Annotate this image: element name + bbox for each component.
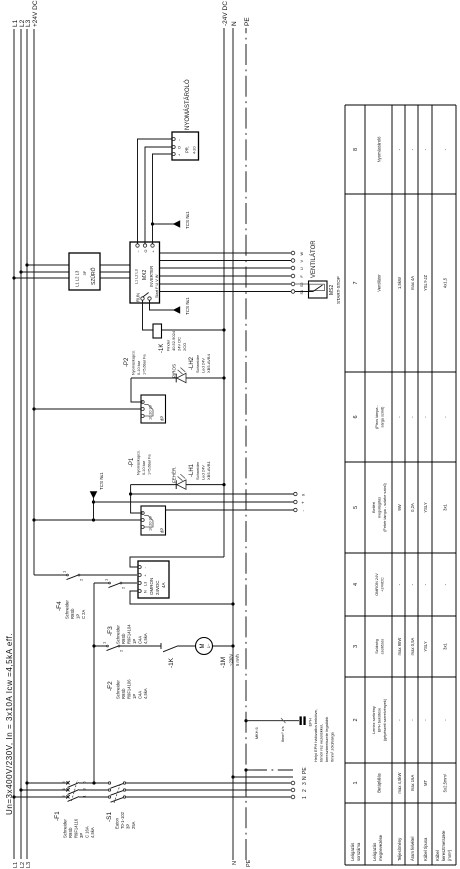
svg-text:3: 3	[302, 782, 308, 785]
inverter RUN terminals	[141, 293, 151, 301]
EPH lug	[300, 716, 313, 726]
wire P2 NO contact to LED	[131, 378, 143, 402]
svg-text:PE: PE	[302, 767, 308, 774]
svg-text:szellőzés: szellőzés	[381, 639, 385, 655]
svg-text:YSLY-JZ: YSLY-JZ	[423, 275, 428, 292]
inverter analog terminals	[136, 244, 156, 253]
svg-text:1,5kW: 1,5kW	[397, 277, 402, 289]
pressure switch P2	[141, 395, 166, 423]
fan switch label	[329, 276, 341, 304]
svg-text:R9F14116: R9F14116	[74, 818, 79, 838]
svg-text:1P: 1P	[132, 694, 137, 699]
svg-text:8: 8	[353, 148, 359, 151]
wire incoming phase 1	[14, 796, 291, 798]
svg-text:Schneider: Schneider	[116, 680, 121, 699]
table column 3 szellozes	[353, 637, 448, 655]
wire filter to inverter	[100, 265, 130, 278]
svg-text:OMRON: OMRON	[149, 578, 154, 595]
svg-text:Finder: Finder	[166, 339, 171, 351]
wire rail L3	[25, 19, 32, 868]
svg-text:Beltéri: Beltéri	[372, 502, 376, 513]
svg-text:-F4: -F4	[56, 601, 63, 611]
svg-text:1P: 1P	[76, 614, 81, 619]
node L3 tap to filter	[25, 263, 28, 266]
svg-text:3x1: 3x1	[443, 642, 448, 649]
svg-text:6mm² z/s: 6mm² z/s	[281, 726, 285, 742]
wire inverter output U	[160, 267, 292, 269]
svg-text:SZŰRŐ: SZŰRŐ	[90, 267, 97, 285]
svg-text:0-10 bar: 0-10 bar	[137, 360, 141, 375]
node +24V tap P2	[32, 407, 35, 410]
wire PSU N to N rail	[130, 591, 233, 604]
svg-text:0,2A: 0,2A	[410, 503, 415, 512]
node F2 branch tap	[92, 644, 95, 647]
svg-text:Un=3x400V/230V, In = 3x10A Icw: Un=3x400V/230V, In = 3x10A Icw =4,5kA ef…	[5, 633, 14, 815]
breaker F3 pin labels	[104, 578, 126, 589]
svg-text:keresztmetszete legalább: keresztmetszete legalább	[324, 716, 329, 762]
table column 7 ventilator	[353, 274, 448, 292]
fan MS2 box	[295, 281, 327, 298]
node LH1 to -24V	[222, 483, 225, 486]
svg-text:Nyomástároló: Nyomástároló	[377, 136, 382, 163]
svg-text:RUN: RUN	[136, 293, 141, 302]
svg-text:YSLY: YSLY	[423, 641, 428, 652]
node motor to N	[231, 644, 234, 647]
wire +24V to P1	[34, 519, 141, 521]
wire TCS reference arrow 2	[150, 297, 191, 315]
svg-text:max 0,5A: max 0,5A	[410, 637, 415, 655]
svg-text:PIROS: PIROS	[172, 364, 177, 378]
filter Z1	[69, 253, 100, 290]
breaker F1 pole 1	[66, 795, 79, 801]
svg-text:PE: PE	[244, 17, 251, 26]
svg-text:O: O	[144, 250, 148, 253]
breaker F3 value label	[107, 624, 148, 644]
motor M1 label	[220, 653, 240, 668]
wire P1 NO contact to LED	[131, 485, 143, 513]
svg-text:YSLY: YSLY	[423, 502, 428, 513]
svg-text:PE: PE	[246, 859, 252, 867]
power supply U1 OMRON	[138, 561, 169, 598]
svg-text:tömör réz vezetékkel,: tömör réz vezetékkel,	[319, 724, 324, 762]
svg-text:5 m³/h: 5 m³/h	[235, 653, 240, 666]
svg-text:-24V DC: -24V DC	[222, 1, 229, 26]
terminal transmitter plus	[294, 500, 306, 504]
node PE tap to terminal	[244, 768, 247, 771]
terminal 1	[291, 795, 308, 799]
node L1 tap to filter	[12, 276, 15, 279]
breaker F1 pole 2	[66, 788, 79, 794]
svg-text:Kábel: Kábel	[435, 850, 440, 861]
wire inverter to sensor 2	[145, 147, 172, 244]
svg-text:0-10 bar: 0-10 bar	[142, 460, 146, 475]
svg-text:1=5,6bar Fa: 1=5,6bar Fa	[143, 354, 147, 375]
svg-text:4,5kA: 4,5kA	[143, 633, 148, 644]
svg-text:5: 5	[353, 506, 359, 509]
svg-text:24V DC: 24V DC	[177, 337, 182, 351]
svg-text:5x2,5mm²: 5x2,5mm²	[443, 773, 448, 792]
wire EPH cable tick	[255, 718, 286, 742]
wire inverter output S1	[160, 291, 292, 293]
wire inverter to sensor 1	[138, 139, 173, 244]
svg-text:Schneider: Schneider	[65, 600, 70, 619]
svg-text:max 4A: max 4A	[410, 276, 415, 290]
svg-text:Schneider: Schneider	[195, 461, 200, 480]
motor M1	[196, 638, 213, 655]
svg-text:Nyomáskapcs.: Nyomáskapcs.	[132, 350, 136, 375]
svg-text:N: N	[232, 861, 238, 865]
svg-text:4x1,5: 4x1,5	[443, 277, 448, 288]
svg-text:max 95W: max 95W	[397, 638, 402, 656]
svg-text:Lemez szekrény: Lemez szekrény	[372, 706, 376, 734]
svg-text:-F1: -F1	[54, 811, 61, 821]
breaker F1 mechanical link	[72, 780, 78, 801]
svg-text:6mm² zöld/sárga: 6mm² zöld/sárga	[330, 731, 335, 762]
wire +24V to P2	[34, 408, 141, 410]
terminal 3	[291, 781, 308, 785]
wire rail PE	[244, 17, 252, 867]
svg-text:INVERTER: INVERTER	[149, 266, 154, 287]
svg-text:+24V DC: +24V DC	[32, 0, 39, 27]
svg-text:24VDC: 24VDC	[155, 580, 160, 595]
svg-text:max 16A: max 16A	[410, 775, 415, 792]
wire transmitter minus	[166, 509, 294, 511]
table header column	[350, 830, 452, 861]
svg-text:T0-1-102: T0-1-102	[120, 811, 125, 829]
node +24V tap P1	[32, 518, 35, 521]
svg-text:START-STOP: START-STOP	[336, 276, 341, 304]
node L2 tap to F1	[19, 788, 22, 791]
svg-text:1: 1	[302, 796, 308, 799]
svg-text:Leágazás: Leágazás	[350, 843, 355, 861]
svg-text:(Fehér lámpa - szürke színű): (Fehér lámpa - szürke színű)	[383, 482, 387, 531]
svg-text:MKH 6: MKH 6	[255, 727, 259, 739]
svg-text:TCS №1: TCS №1	[185, 297, 190, 315]
svg-text:Schneider: Schneider	[63, 819, 68, 838]
svg-text:VENTILÁTOR: VENTILÁTOR	[310, 240, 317, 278]
svg-text:-F3: -F3	[107, 626, 114, 636]
wire coil to -24V	[162, 329, 225, 331]
wire rail L1	[12, 19, 19, 868]
svg-text:Led 24V: Led 24V	[201, 358, 206, 373]
LED LH2 value label	[189, 353, 211, 373]
svg-text:-1K: -1K	[168, 657, 175, 668]
EPH note	[313, 709, 335, 762]
svg-text:Nyomáskapcs.: Nyomáskapcs.	[137, 450, 141, 475]
breaker F4 value label	[56, 600, 86, 619]
svg-text:U: U	[300, 267, 304, 270]
svg-text:25A: 25A	[131, 821, 136, 829]
wire inverter output W	[160, 252, 292, 254]
svg-text:1=5,6bar Fa: 1=5,6bar Fa	[148, 454, 152, 475]
svg-text:Áram felvétel: Áram felvétel	[410, 836, 415, 861]
svg-text:Schneider: Schneider	[116, 625, 121, 644]
breaker F3 contact	[109, 582, 122, 588]
svg-text:4,5kA: 4,5kA	[90, 827, 95, 838]
svg-text:L1 L2 L3: L1 L2 L3	[75, 270, 80, 287]
table column 1 Betaplalas	[353, 772, 448, 793]
svg-text:2CO: 2CO	[182, 343, 187, 351]
LED LH1	[131, 474, 224, 489]
svg-text:L1: L1	[13, 862, 19, 868]
svg-text:MS2: MS2	[329, 285, 335, 296]
breaker F1 value label	[54, 811, 95, 838]
svg-text:-F2: -F2	[107, 681, 114, 691]
inverter U2 MX2	[130, 242, 160, 303]
breaker F1 pin labels	[61, 781, 87, 798]
wire rail -24V DC	[130, 1, 229, 567]
svg-text:TCS №1: TCS №1	[185, 211, 190, 229]
svg-text:Start F U V W: Start F U V W	[155, 274, 159, 298]
node transmitter plus junction	[92, 500, 95, 503]
relay coil K1 label	[159, 330, 187, 353]
svg-text:4A: 4A	[161, 582, 166, 588]
svg-text:4-20: 4-20	[193, 146, 197, 154]
svg-text:keresztmetszete: keresztmetszete	[441, 830, 446, 861]
svg-text:XB5-AVB4: XB5-AVB4	[206, 353, 211, 373]
svg-text:3P: 3P	[79, 833, 84, 838]
svg-text:~230V: ~230V	[229, 654, 234, 666]
svg-text:L3: L3	[26, 862, 32, 868]
wire inverter output S2	[160, 283, 292, 285]
LED LH1 value label	[189, 460, 211, 480]
svg-text:EPH bekötése: EPH bekötése	[378, 708, 382, 732]
fan terminal labels	[300, 252, 304, 295]
svg-text:megvilágítás: megvilágítás	[378, 497, 382, 518]
svg-text:C4A: C4A	[138, 691, 143, 699]
breaker F1 pole 3	[66, 781, 79, 787]
breaker F2 contact	[107, 645, 120, 651]
table column 8 nyomastarolo	[353, 136, 448, 163]
svg-text:9W: 9W	[397, 504, 402, 510]
LED LH2	[131, 368, 224, 383]
svg-text:W: W	[300, 252, 304, 256]
svg-text:max 4,5kW: max 4,5kW	[397, 772, 402, 793]
pressure switch P1 label	[129, 450, 152, 475]
pressure sensor B1	[172, 132, 199, 160]
svg-text:-P1: -P1	[129, 457, 135, 467]
breaker F4 pin labels	[62, 570, 84, 581]
wire TCS branch transmitter plus	[93, 502, 95, 520]
wire transmitter plus	[94, 501, 294, 503]
node PE tap EPH	[244, 719, 247, 722]
table column 2 EPH	[353, 698, 448, 741]
svg-text:R9Sb: R9Sb	[68, 827, 73, 838]
svg-text:PR.: PR.	[185, 146, 190, 153]
wire inverter output V	[160, 260, 292, 262]
svg-text:S1: S1	[300, 290, 304, 295]
wire TCS reference arrow 1	[153, 211, 191, 229]
wire transmitter x	[131, 493, 294, 495]
svg-text:1~: 1~	[206, 643, 211, 648]
svg-text:L3: L3	[144, 582, 148, 586]
svg-text:-1K: -1K	[159, 344, 165, 353]
svg-text:R9F14104: R9F14104	[127, 624, 132, 644]
svg-text:FEHÉR.: FEHÉR.	[171, 466, 177, 483]
wire rail +24V DC	[32, 0, 39, 575]
node L2 tap to filter	[19, 270, 22, 273]
node L3 tap to F1	[25, 781, 28, 784]
switch S1 pole 3	[108, 782, 125, 788]
svg-text:3F: 3F	[82, 270, 87, 275]
svg-text:Teljesítmény: Teljesítmény	[397, 837, 402, 861]
node TCS tap P1 line	[92, 518, 95, 521]
svg-text:Leágazás: Leágazás	[372, 843, 377, 861]
svg-text:-1M: -1M	[220, 657, 227, 668]
svg-text:N: N	[231, 21, 238, 26]
wire F3 branch	[94, 582, 137, 584]
wire incoming phase 3	[27, 782, 291, 784]
svg-text:Led 24V: Led 24V	[201, 465, 206, 480]
table grid	[345, 105, 456, 865]
svg-text:Eaton: Eaton	[115, 817, 120, 829]
svg-text:R9Sb: R9Sb	[121, 688, 126, 699]
switch S1 mechanical link	[114, 785, 120, 803]
pressure switch P1	[141, 506, 166, 535]
terminal transmitter minus	[294, 508, 306, 511]
relay coil K1	[153, 324, 162, 338]
node feeder tap on phase 3	[92, 781, 95, 784]
svg-text:C4A: C4A	[138, 636, 143, 644]
wire inverter RUN to coil	[143, 300, 154, 330]
breaker F2 pin labels	[102, 641, 124, 652]
svg-text:-P2: -P2	[124, 357, 130, 367]
wire PE to terminal	[246, 767, 308, 774]
svg-text:2: 2	[353, 718, 359, 721]
node LH2 to -24V	[222, 376, 225, 379]
wire rail N	[231, 21, 238, 865]
svg-text:L1: L1	[12, 19, 19, 27]
svg-text:Szükség: Szükség	[375, 639, 379, 654]
svg-text:R9Sb: R9Sb	[70, 608, 75, 619]
breaker F4 contact	[67, 574, 80, 580]
svg-text:dP: dP	[160, 416, 165, 421]
wire inverter output F	[160, 275, 292, 277]
switch S1 pole 2	[108, 789, 125, 795]
svg-text:TCS №1: TCS №1	[99, 472, 104, 490]
svg-text:1: 1	[353, 781, 359, 784]
node coil to -24V	[222, 328, 225, 331]
svg-text:megnevezése: megnevezése	[378, 834, 383, 861]
svg-text:40.52.9024: 40.52.9024	[171, 330, 176, 351]
svg-text:dP: dP	[160, 528, 165, 533]
svg-text:Ventilátor: Ventilátor	[377, 274, 382, 292]
svg-text:EPH: EPH	[308, 718, 313, 726]
svg-text:+: +	[301, 501, 306, 504]
power supply terminals	[138, 566, 147, 594]
table column 4 OMRON	[353, 573, 448, 596]
wire inverter to sensor 3	[153, 154, 173, 244]
svg-text:3x1: 3x1	[443, 503, 448, 510]
svg-text:7: 7	[353, 281, 359, 284]
svg-text:2: 2	[302, 789, 308, 792]
svg-text:L1 L2 L3: L1 L2 L3	[135, 269, 139, 284]
switch S1 label	[106, 811, 136, 829]
svg-text:XB5-AVB1: XB5-AVB1	[206, 460, 211, 480]
wire PE to EPH lug	[246, 720, 299, 722]
svg-text:1P: 1P	[132, 639, 137, 644]
switch S1 pole 1	[108, 796, 125, 802]
node PSU N junction	[231, 602, 234, 605]
wire F4 branch from +24V	[34, 574, 137, 576]
pressure switch P2 label	[124, 350, 147, 375]
svg-text:3P: 3P	[126, 824, 131, 829]
svg-text:Kábel típusa: Kábel típusa	[423, 837, 428, 861]
wire F2 branch	[94, 645, 233, 647]
svg-text:OMRON 24V: OMRON 24V	[375, 573, 379, 596]
svg-text:R9F14106: R9F14106	[127, 679, 132, 699]
table column 6 lampa piros	[353, 404, 448, 428]
terminal transmitter x	[294, 492, 306, 496]
svg-text:6: 6	[353, 415, 359, 418]
svg-text:C 16A: C 16A	[85, 826, 90, 838]
svg-text:R9Sb: R9Sb	[121, 633, 126, 644]
svg-text:(mm²): (mm²)	[447, 849, 452, 861]
wire TCS reference arrow 3	[90, 472, 104, 502]
node transmitter x junction	[129, 492, 132, 495]
svg-text:3: 3	[353, 645, 359, 648]
wire rail L2	[19, 19, 26, 868]
fan terminals	[291, 251, 295, 293]
node N tap to terminal	[231, 775, 234, 778]
svg-text:sorszáma: sorszáma	[356, 842, 361, 861]
svg-text:sárga színű): sárga színű)	[381, 406, 385, 428]
svg-text:4: 4	[353, 583, 359, 586]
svg-text:(gépészeti szerelvények): (gépészeti szerelvények)	[383, 698, 387, 741]
svg-text:-S1: -S1	[106, 812, 113, 823]
svg-text:O: O	[178, 146, 182, 149]
svg-text:S2: S2	[300, 282, 304, 287]
breaker F2 value label	[107, 679, 148, 699]
svg-text:Schneider: Schneider	[195, 354, 200, 373]
svg-text:N: N	[144, 590, 148, 593]
contact 1K	[161, 643, 178, 668]
wire incoming phase 2	[21, 789, 291, 791]
table column 5 lampa feher	[353, 482, 448, 531]
wire N to terminal	[233, 776, 308, 780]
svg-text:Betáplálás: Betáplálás	[377, 773, 382, 793]
svg-text:MT: MT	[423, 780, 428, 786]
svg-text:N: N	[302, 776, 308, 780]
svg-text:4,5kA: 4,5kA	[143, 688, 148, 699]
svg-text:C 2A: C 2A	[81, 609, 86, 619]
wire rails to filter	[14, 265, 69, 278]
svg-text:Helyi EPH hálózatba bekötve,: Helyi EPH hálózatba bekötve,	[313, 709, 318, 762]
svg-text:+24VDC: +24VDC	[381, 577, 385, 592]
node L1 tap to F1	[12, 795, 15, 798]
svg-text:L3: L3	[25, 19, 32, 27]
terminal 2	[291, 788, 308, 792]
wire feeder to F2 F3	[93, 583, 95, 783]
svg-text:NYOMÁSTÁROLÓ: NYOMÁSTÁROLÓ	[184, 79, 191, 130]
svg-text:MX2: MX2	[142, 270, 148, 281]
node TCS tap on sensor wire	[151, 222, 154, 225]
svg-text:(Piros lámpa -: (Piros lámpa -	[375, 404, 379, 428]
